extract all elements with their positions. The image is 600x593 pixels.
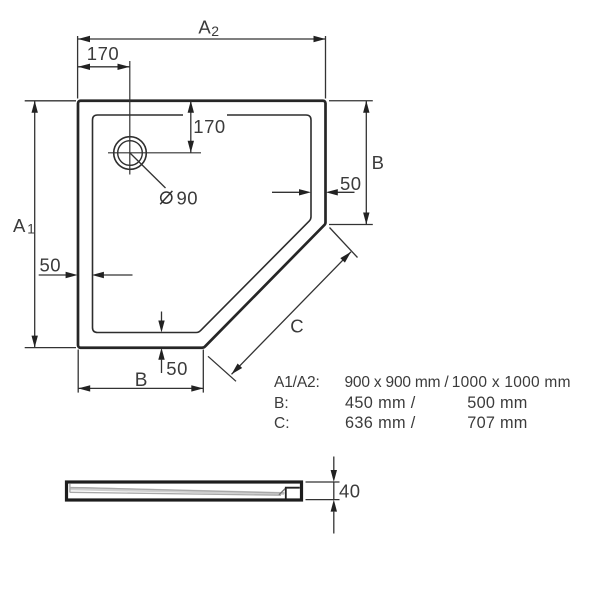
drain outer circle: [114, 137, 147, 170]
dim A2 arrow right: [314, 36, 326, 42]
svg-text:50: 50: [166, 358, 188, 379]
svg-text:900 x 900 mm /: 900 x 900 mm /: [345, 374, 450, 391]
dim A2 line: [78, 38, 326, 40]
dim 50 right arrow onto inner wall: [299, 189, 311, 195]
section view tray body: [67, 482, 302, 500]
dim 50 left tail right: [103, 274, 133, 276]
dim 50 bottom tail bottom: [161, 359, 163, 373]
dim 50 bottom tail top: [161, 312, 163, 322]
dim 40 line upper: [333, 457, 335, 472]
svg-text:2: 2: [211, 23, 219, 39]
svg-text:1000 x 1000 mm: 1000 x 1000 mm: [452, 374, 571, 391]
dim 170 top line: [78, 66, 130, 68]
dim C extension top: [330, 228, 358, 258]
svg-text:170: 170: [193, 116, 225, 137]
dim 170 vertical arrow bottom: [188, 141, 194, 153]
dim 50 left arrow onto inner wall: [92, 272, 104, 278]
section floor lower line: [70, 492, 281, 495]
dim 170 top arrow right: [118, 64, 130, 70]
dim A2 extension left: [77, 36, 79, 99]
dim 40 arrow up: [331, 500, 337, 512]
dim B right extension top: [329, 100, 373, 102]
dim 170 vertical arrow top: [188, 101, 194, 113]
svg-text:A: A: [13, 215, 26, 236]
svg-text:C:: C:: [274, 415, 290, 432]
dim 170 top arrow left: [78, 64, 90, 70]
tray outer outline (plan view pentagon): [78, 101, 326, 348]
dim 40 mid segment: [333, 482, 335, 500]
svg-text:50: 50: [40, 255, 62, 276]
dim 40 extension top: [306, 481, 340, 483]
dim A2 arrow left: [78, 36, 90, 42]
svg-text:B: B: [135, 370, 148, 391]
dim A1 extension top: [25, 100, 76, 102]
svg-text:450 mm /: 450 mm /: [345, 394, 416, 412]
dim A1 line: [34, 101, 36, 348]
section inner floor band (gray): [70, 487, 284, 495]
drain inner circle: [118, 141, 143, 166]
drain horizontal centerline: [108, 152, 201, 154]
dim B bottom extension left: [77, 350, 79, 393]
dim A1 arrow bottom: [32, 336, 38, 348]
dim B bottom arrow right: [191, 385, 203, 391]
section floor upper line: [83, 488, 285, 493]
svg-text:B:: B:: [274, 395, 289, 412]
svg-text:B: B: [372, 152, 384, 173]
dim B bottom line: [78, 387, 203, 389]
section inner rim step horizontal: [70, 487, 83, 489]
svg-text:90: 90: [177, 187, 199, 208]
dim B right arrow bottom: [363, 213, 369, 225]
dim B right extension bottom: [329, 224, 373, 226]
dim 170 vertical line: [190, 101, 192, 153]
dim C extension bottom: [208, 356, 236, 381]
svg-text:C: C: [290, 316, 303, 337]
svg-text:A1/A2:: A1/A2:: [274, 374, 320, 391]
section drain pocket: [286, 488, 300, 499]
dim 50 right arrow onto outer wall: [326, 189, 338, 195]
dim A2 extension right: [325, 36, 327, 99]
dim B bottom arrow left: [78, 385, 90, 391]
diameter symbol circle: [161, 192, 172, 203]
dim 50 right tail right: [337, 191, 355, 193]
dim A1 arrow top: [32, 101, 38, 113]
diameter symbol slash: [160, 191, 172, 204]
section drain pocket slope: [279, 488, 286, 495]
dim 50 bottom arrow onto inner wall: [158, 321, 164, 333]
svg-text:A: A: [198, 17, 211, 38]
dim B bottom extension right: [202, 350, 204, 393]
svg-text:50: 50: [340, 173, 362, 194]
dim 40 arrow down: [331, 470, 337, 482]
tray inner outline (with gap at top for 170 dim): [93, 115, 312, 333]
dim 40 extension bottom: [306, 499, 340, 501]
dim 40 line lower: [333, 512, 335, 534]
dim B right arrow top: [363, 101, 369, 113]
drain vertical centerline: [129, 61, 131, 175]
svg-text:707 mm: 707 mm: [467, 414, 527, 432]
dim 50 right tail left: [272, 191, 300, 193]
dim 50 left arrow onto outer wall: [66, 272, 78, 278]
svg-text:636 mm /: 636 mm /: [345, 414, 416, 432]
dim 50 left tail left: [39, 274, 67, 276]
dim 50 bottom arrow onto outer wall: [158, 348, 164, 360]
dim A1 extension bottom: [25, 347, 76, 349]
drain leader line: [130, 153, 166, 188]
svg-text:170: 170: [87, 43, 119, 64]
svg-text:40: 40: [339, 481, 361, 502]
svg-text:1: 1: [27, 222, 35, 237]
dim C arrow bottom: [232, 363, 243, 374]
section inner rim step vertical: [69, 484, 71, 493]
svg-text:500 mm: 500 mm: [467, 394, 527, 412]
dim C arrow top: [340, 252, 351, 263]
dim C line: [232, 252, 352, 374]
dim B right line: [365, 101, 367, 225]
